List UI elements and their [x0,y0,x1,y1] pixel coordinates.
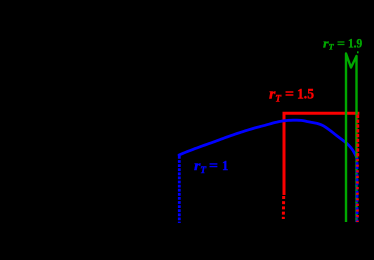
red right vertical dotted lower (x=357.5) [356,158,359,222]
svg-text:rT=1: rT=1 [194,159,228,176]
red left vertical solid (density r_T=1.5, x=284) [283,113,286,196]
green tip nub right of notch [357,51,359,53]
blue dotted vertical right (x=357.1) [356,158,359,223]
curve rT=1 (blue solid density curve) [179,120,357,157]
red horizontal (y=113) [283,112,360,115]
blue dotted vertical left (x=179) [178,156,181,223]
red right vertical dotted upper (x=357.8) [356,115,359,158]
green density r_T=1.9: left vertical + notch + right vertical [346,54,357,223]
red left vertical dotted (x=284) [282,196,285,219]
